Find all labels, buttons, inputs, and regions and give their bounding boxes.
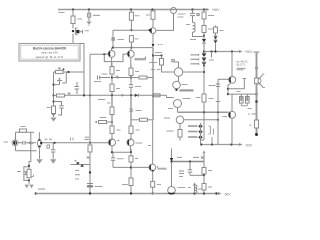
label Q13: [164, 117, 170, 119]
wire to protection cluster: [28, 162, 30, 170]
resistor R29: [178, 130, 182, 138]
wire x30.8 vertical: [30, 132, 32, 151]
capacitor C5 marks row: [98, 76, 111, 80]
wire: [203, 33, 205, 40]
node dot: [255, 100, 258, 103]
x mark: [201, 156, 204, 159]
wire drop from rail x73: [72, 10, 74, 17]
label L2: [198, 188, 202, 190]
wire: [89, 152, 91, 194]
label Q11: [182, 84, 188, 86]
bias trimmer cluster top wire: [54, 71, 85, 73]
node dot: [28, 165, 30, 167]
wire Q4 to Q3: [156, 14, 174, 31]
arrow head +56V rail: [206, 8, 210, 11]
bias diode row D14: [188, 136, 198, 138]
label C1 value: [93, 14, 100, 16]
transistor Q2 bias: [57, 72, 66, 85]
wire Q6 down: [130, 57, 132, 68]
node dots on bottom rail: [89, 192, 91, 194]
wire R4 to base line: [130, 20, 132, 30]
title block box: [19, 44, 80, 62]
label Q15 below: [223, 116, 228, 118]
wire R34 to rail: [203, 190, 205, 194]
resistor R15 horizontal: [139, 76, 147, 79]
node dots on spur: [210, 50, 212, 52]
resistor R1 input top: [20, 129, 27, 132]
resistor R9 from rail x204: [203, 10, 205, 13]
cap marks above output: [45, 138, 53, 140]
resistor R19 horizontal: [99, 121, 107, 124]
wire box bottom: [113, 162, 131, 178]
node dot at output column: [255, 93, 258, 96]
resistor R5: [129, 36, 133, 42]
resistor R32: [255, 120, 259, 128]
label R35: [157, 184, 161, 186]
label Q6 bar: [135, 58, 146, 60]
input device Q9 ellipse: [32, 132, 43, 151]
node dot: [52, 100, 54, 102]
wire x30.8 hook: [29, 151, 31, 162]
wire TB stub: [130, 48, 133, 51]
label R11 left: [196, 97, 201, 99]
node dot: [230, 143, 232, 145]
arrow head +50V: [239, 50, 243, 53]
node dot: [203, 34, 205, 36]
wire zobel box top: [172, 161, 205, 163]
label R25: [135, 158, 138, 160]
diode string D2-D4 below rail: [202, 53, 206, 65]
wire R35 to rail: [152, 187, 154, 193]
label R1: [21, 126, 26, 128]
wire R8 to VAS base: [162, 65, 175, 72]
label C5: [102, 73, 108, 75]
capacitor C1 at x89 to ground: [88, 10, 90, 14]
transistor Q4 on rail: [171, 8, 177, 14]
node dot trimmer right: [67, 71, 69, 73]
node dots -50V spur: [200, 143, 202, 145]
diode pair D9 D10: [71, 160, 91, 167]
node dot: [175, 89, 177, 91]
wire +50V spur: [204, 51, 240, 53]
resistor R27: [27, 169, 31, 178]
capacitor C12 label block: [179, 171, 184, 173]
wire -50V spur: [201, 144, 239, 146]
label R34: [208, 186, 212, 188]
label near coil: [186, 24, 190, 26]
label Q17 thick bar: [158, 168, 167, 170]
wire x39.5 to ground: [39, 151, 41, 159]
plus mark: [68, 92, 71, 95]
capacitor C2 bracket pair right of Q2: [75, 82, 80, 94]
wire L1 to x204: [193, 32, 205, 36]
diodes D6 D7: [215, 33, 217, 36]
label Q3: [158, 44, 163, 46]
svg-text:+56V: +56V: [212, 8, 221, 12]
wire feedback network box top: [112, 151, 131, 153]
diode diamond D12: [198, 124, 202, 128]
label C8: [117, 158, 124, 160]
wire VAS collector to diode column: [183, 71, 204, 73]
label bars diode string: [191, 55, 199, 64]
label R16: [116, 88, 120, 90]
wire R26 to rail: [130, 186, 132, 194]
wire output column x256.5: [256, 52, 258, 135]
label b=1: [248, 108, 252, 110]
wire jog to Q6 base: [104, 54, 126, 61]
label C6 470p: [135, 86, 141, 88]
svg-text:BLS?1: BLS?1: [237, 63, 246, 67]
wire emitter row y47.6: [113, 47, 153, 49]
node dots on bias line: [83, 94, 85, 96]
wire Q15 emitter down: [231, 118, 233, 144]
hook mark: [31, 175, 33, 177]
inductor L2: [194, 185, 196, 194]
label R11 bottom: [209, 98, 214, 100]
label Q12 emitter: [168, 108, 173, 110]
label stub: [209, 59, 214, 61]
resistor R8: [161, 56, 163, 59]
wire: [111, 74, 113, 84]
small component bracket: [47, 145, 50, 148]
resistor R35: [151, 181, 155, 187]
node blob: [29, 142, 32, 145]
resistor R16: [110, 84, 114, 92]
node dot: [217, 119, 219, 121]
node dots: [111, 151, 113, 153]
input box wires: [16, 132, 37, 151]
transistor Q1 current source: [72, 28, 83, 35]
label bias line: [98, 99, 105, 101]
label R10: [208, 28, 214, 30]
capacitor C6: [129, 85, 133, 96]
wire driver column x232: [231, 52, 233, 77]
node dot: [52, 84, 54, 86]
wire jog to VAS2 base: [167, 95, 170, 97]
node dot output node: [130, 166, 132, 168]
stub x211.5: [211, 52, 213, 58]
wire VAS collector up: [174, 62, 178, 68]
resistor R14: [129, 68, 133, 76]
transistor Q11: [173, 81, 181, 89]
wire to predriver tap: [228, 79, 246, 89]
wire arrow to R19: [90, 121, 99, 123]
wire feedback column x90: [89, 55, 91, 143]
label near output R pair: [237, 91, 241, 93]
capacitor C3 parallel loop: [54, 102, 64, 116]
label R13: [116, 70, 120, 72]
wire Q15 collector up: [231, 94, 233, 111]
label C12: [179, 176, 183, 178]
node dot rail start: [35, 192, 37, 194]
label Q12: [183, 98, 191, 100]
label mark: [248, 113, 250, 115]
wire Q7 Q8 down to network box: [112, 146, 131, 152]
resistor R12 small stack: [215, 26, 217, 28]
wire bias box to spur: [200, 140, 202, 145]
capacitor C10 to ground: [51, 143, 55, 159]
connector arrow down left: [171, 149, 173, 159]
label right 1.1m: [209, 85, 216, 87]
diode diamond D13: [198, 130, 202, 134]
wire emitter bus to output column: [228, 93, 257, 95]
tick output column top: [254, 51, 260, 53]
wire to ground: [28, 180, 30, 184]
wire R5 to emitter row: [130, 42, 132, 48]
wire left leg x53.5: [53, 72, 55, 96]
label R19: [100, 117, 107, 119]
ground symbol C10: [50, 159, 56, 164]
svg-text:gweerl igi .SL LL S S!: gweerl igi .SL LL S S!: [36, 55, 64, 59]
label R3: [47, 107, 51, 109]
wire Q14 base feed column x218: [218, 78, 227, 80]
node dots zobel: [170, 160, 172, 162]
resistor R13: [110, 67, 114, 75]
wire Q12 base: [169, 97, 174, 99]
resistor R22: [110, 126, 114, 134]
node dot: [152, 192, 154, 194]
label Q10: [151, 69, 161, 71]
label R8: [149, 62, 157, 64]
small mark row: [116, 76, 119, 79]
label R4: [135, 15, 140, 17]
resistor R11: [202, 94, 206, 102]
label Q4: [178, 14, 186, 17]
node dot feedback input: [89, 142, 91, 144]
node dot VAS collector junction: [203, 71, 205, 73]
transistor Q5 input pair left: [107, 51, 115, 58]
wire x153 lower column: [152, 120, 154, 182]
node dots on x153: [152, 54, 154, 56]
wire base line y30.2: [113, 29, 150, 31]
node dot: [130, 76, 132, 78]
resistor R23: [129, 126, 133, 134]
wire VAS emitter: [178, 76, 180, 81]
label R26: [122, 184, 128, 186]
wire bracket stub: [211, 137, 213, 145]
trim mark x131: [130, 109, 134, 113]
wire R19 to x112: [107, 121, 113, 123]
node dot: [203, 64, 205, 66]
svg-text:+50V: +50V: [245, 50, 254, 54]
small mark: [148, 145, 151, 147]
resistor R25: [130, 152, 132, 156]
transistor Q16 output device: [255, 74, 265, 87]
label 4u7: [190, 39, 196, 41]
label R33: [208, 170, 212, 172]
wire y119.8 link: [131, 119, 140, 121]
svg-text:-56V: -56V: [224, 193, 232, 197]
diode D1: [202, 39, 206, 43]
node dot: [227, 88, 229, 90]
wire: [203, 19, 205, 26]
labels below zobel: [178, 187, 192, 189]
node dots: [203, 111, 205, 113]
capacitor C4b small mark: [197, 14, 199, 16]
diode D8 on bias line: [135, 94, 138, 97]
label R5: [135, 38, 139, 40]
emitter resistor R31: [246, 94, 248, 96]
bracket label: [209, 126, 211, 134]
label R23: [136, 129, 140, 131]
transistor Q12: [174, 100, 182, 108]
wire diode column: [201, 112, 205, 140]
wire Q1 down and jog right: [73, 34, 84, 74]
wire Q5 base to feedback column: [90, 53, 107, 55]
small square node VAS top: [172, 60, 174, 62]
wire to node x161.5: [153, 55, 162, 57]
label R7: [146, 14, 150, 16]
arrow head -56V: [217, 192, 222, 195]
transistor Q14 driver upper: [227, 76, 236, 83]
node blob: [255, 66, 258, 69]
node dot: [227, 93, 229, 95]
wire top positive rail: [58, 9, 207, 11]
capacitor C9 series: [18, 141, 37, 145]
capacitor C4 from rail x192.5: [190, 10, 195, 16]
resistor R24 horizontal: [140, 118, 148, 121]
arrow symbol on bias line: [118, 94, 125, 97]
dash mark: [17, 171, 20, 173]
label R2: [78, 18, 83, 20]
resistor R7 from rail x153: [152, 10, 154, 11]
label marks left of Q7: [71, 138, 74, 141]
resistor R4 from rail x131: [130, 10, 132, 13]
resistor R20: [89, 143, 91, 145]
label R21: [107, 102, 111, 104]
wire x204 down: [203, 63, 205, 94]
wire D1 down: [203, 43, 205, 53]
node dot base tie: [103, 53, 105, 55]
wire Q14 emitter jog: [228, 83, 231, 95]
resistor R3: [52, 106, 56, 114]
tick mark: [252, 113, 256, 115]
ground symbol: [50, 118, 56, 122]
transistor Q6 input pair right: [126, 51, 134, 58]
ground symbol: [36, 159, 42, 164]
resistor R18 on bias line: [154, 94, 161, 97]
transistor Q10 VAS: [174, 68, 182, 76]
bias diode row D12: [188, 125, 198, 127]
wire x112 lower column: [111, 96, 113, 108]
resistor R26: [129, 178, 133, 186]
zener D11 loop: [24, 167, 29, 181]
emitter resistor R30: [240, 94, 242, 96]
wire input line to Q7 base: [42, 142, 109, 144]
wire to R33: [190, 174, 204, 176]
wire Q5 down: [111, 57, 113, 66]
wire TA stub: [111, 48, 113, 51]
ground double arrow: [25, 185, 34, 189]
label C14: [118, 39, 125, 41]
wire zobel left leg: [171, 162, 173, 187]
node dot: [28, 179, 30, 181]
node dot: [53, 142, 55, 144]
input jack J1: [13, 141, 17, 145]
transistor Q8 second pair right: [127, 139, 134, 146]
wire to ground: [53, 114, 55, 118]
transistor Q15 driver lower: [229, 111, 236, 118]
resistor R34: [203, 175, 205, 183]
mark x218: [216, 101, 220, 103]
node dot: [89, 171, 91, 173]
wire row to R15: [131, 77, 139, 79]
label input terminal: [4, 141, 9, 143]
wire bottom negative rail: [36, 193, 217, 195]
wire to Q8: [130, 134, 131, 141]
wire Q2 emitter to left leg: [54, 84, 60, 86]
node dot row y77.5: [111, 76, 113, 78]
wire R29 tail: [179, 137, 181, 141]
label Q1: [85, 30, 89, 32]
capacitor C11 marks: [216, 84, 220, 86]
plus tick: [87, 156, 90, 159]
label 1R near rail start: [59, 12, 65, 14]
node dot below R3: [52, 113, 54, 115]
wire: [130, 76, 132, 85]
label R29: [167, 130, 174, 132]
resistor R21: [110, 107, 114, 115]
node dot: [111, 121, 113, 123]
wire bias line y95.5: [54, 94, 167, 96]
wire row segment: [112, 77, 131, 79]
capacitor C13 zobel: [188, 162, 192, 176]
node dot: [130, 29, 132, 31]
label 4k7: [155, 52, 162, 54]
label D6: [220, 30, 224, 32]
svg-text:-50V: -50V: [245, 143, 253, 147]
capacitor C8: [111, 152, 115, 167]
wire Q13 down: [179, 124, 181, 130]
label R9: [208, 15, 214, 17]
label lines: [75, 171, 80, 180]
wire R15 to x152.5: [147, 77, 153, 79]
resistor R28 gray bar: [180, 89, 194, 91]
label +10P: [94, 81, 101, 83]
wire Q12 emitter to bias line: [177, 108, 179, 113]
inductor L1: [192, 16, 194, 23]
label ~rrr: [38, 188, 45, 190]
transistor Q7 second pair left: [109, 139, 120, 146]
wire R7 to Q3: [152, 19, 154, 27]
wire x218 column: [217, 79, 219, 144]
stubs below R30 R31: [241, 103, 247, 106]
marks above zobel: [177, 156, 199, 158]
resistor R33: [203, 162, 205, 168]
transistor J3 output ground device: [168, 187, 176, 195]
wire R16 down: [111, 92, 113, 96]
capacitor C14 gray blob: [111, 37, 114, 41]
wire to Q7: [111, 134, 112, 141]
label R22: [117, 129, 121, 131]
node junction dots on top rail: [72, 8, 205, 10]
transistor Q13 bias servo: [176, 116, 184, 124]
capacitor marks at feedback node: [85, 137, 90, 139]
wire x131 lower column: [130, 96, 132, 127]
bracket mark: [213, 129, 215, 135]
node dot: [203, 174, 205, 176]
arrow head -50V: [239, 143, 243, 146]
wire x53.5 down: [53, 96, 55, 107]
wire R24 to x152.5: [148, 119, 154, 121]
wire to Q17 base: [131, 166, 149, 168]
node dots emitter row: [112, 47, 114, 49]
trimmer VR1: [56, 68, 65, 74]
wire: [111, 115, 113, 127]
node dot column end: [255, 133, 258, 136]
wire R11 to bias line: [203, 102, 205, 113]
wire x84 lower segment: [83, 74, 85, 96]
